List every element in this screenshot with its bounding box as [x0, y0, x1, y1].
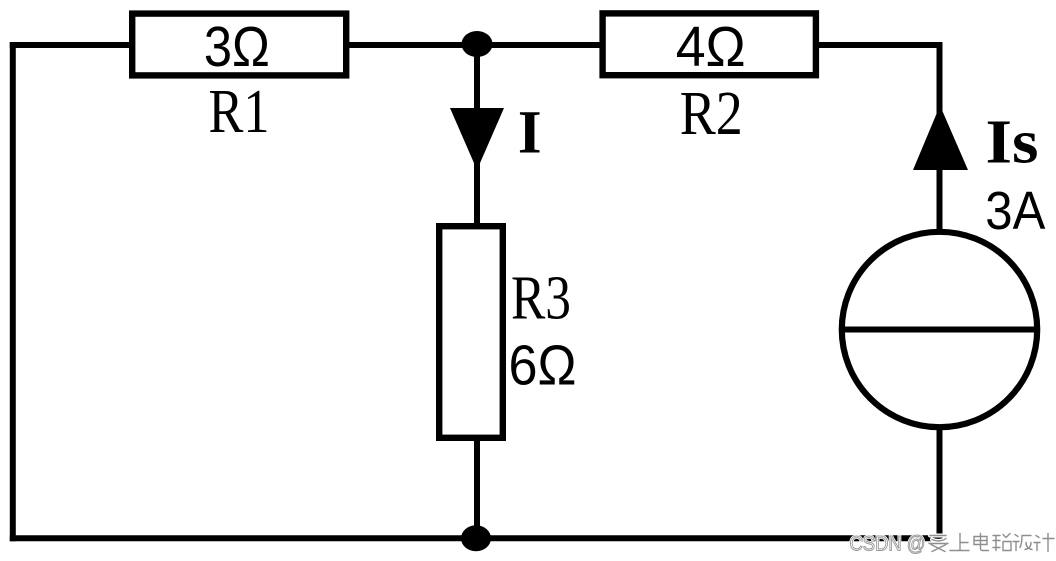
svg-text:R3: R3: [511, 265, 571, 333]
svg-text:6Ω: 6Ω: [509, 333, 577, 397]
svg-text:4Ω: 4Ω: [676, 15, 746, 79]
svg-text:3A: 3A: [985, 181, 1045, 241]
wire left vertical: [10, 42, 16, 541]
svg-text:CSDN @: CSDN @: [850, 533, 926, 556]
wire node to R2: [474, 42, 603, 48]
watermark CSDN @: [850, 533, 926, 556]
current arrow I (down): [450, 108, 504, 170]
wire R2 to top-right corner: [816, 42, 942, 48]
wire node to R3 top: [474, 44, 480, 227]
current source Is circle: [842, 232, 1037, 427]
svg-text:R2: R2: [680, 80, 743, 148]
svg-text:3Ω: 3Ω: [204, 15, 270, 79]
wire right vertical lower: [937, 428, 943, 541]
resistor R3: [439, 226, 503, 438]
wire top-left segment: [10, 42, 133, 48]
resistor R2: [603, 13, 816, 75]
svg-text:R1: R1: [209, 78, 270, 146]
node B (bottom junction dot): [461, 525, 491, 551]
wire right vertical upper: [937, 42, 943, 234]
svg-text:Is: Is: [986, 106, 1039, 176]
wire bottom rail: [10, 535, 942, 541]
current arrow Is (up): [913, 106, 968, 171]
resistor R1: [132, 14, 346, 76]
wire R3 bottom to rail: [474, 438, 480, 538]
node A (top junction dot): [462, 31, 493, 57]
current source chord: [842, 327, 1037, 333]
svg-text:I: I: [518, 100, 542, 167]
wire R1 to node: [346, 42, 480, 48]
watermark 爱上电路设计 (vector strokes): [929, 534, 1054, 552]
